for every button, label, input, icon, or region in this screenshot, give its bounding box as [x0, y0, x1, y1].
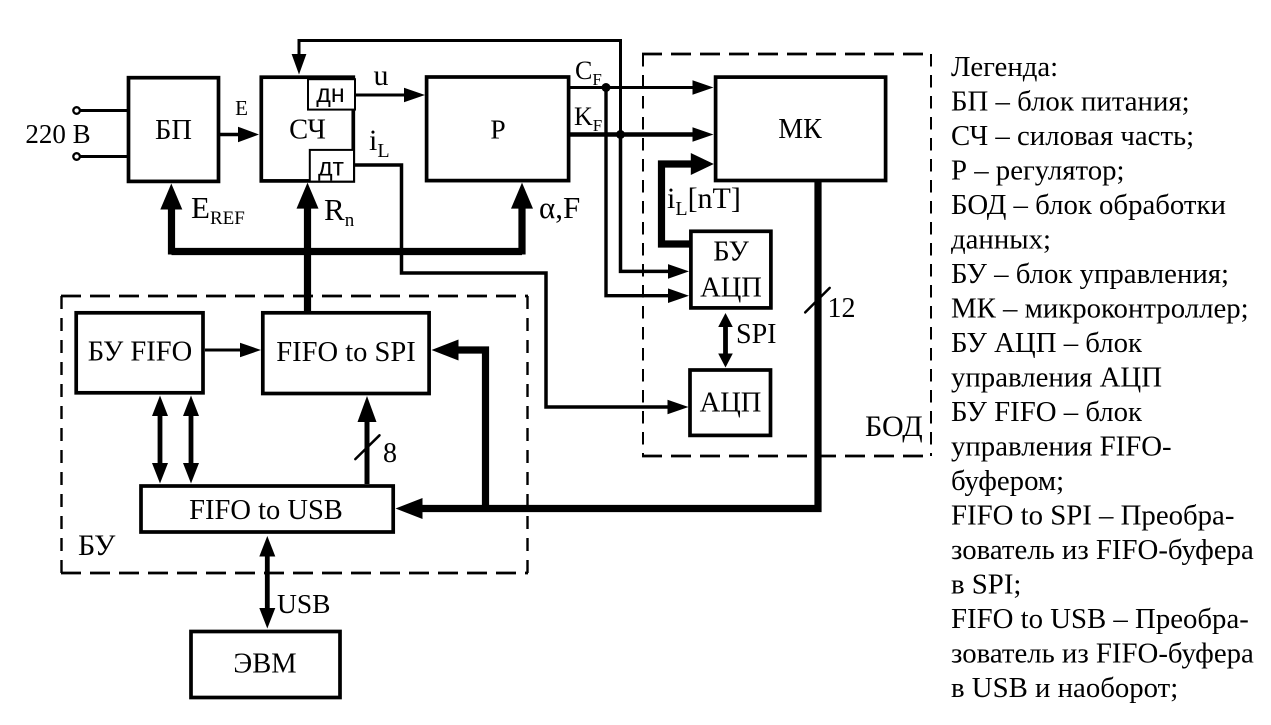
svg-text:α,F: α,F — [539, 190, 580, 225]
svg-text:Р: Р — [490, 114, 505, 145]
svg-text:БОД: БОД — [865, 410, 923, 443]
svg-text:ЭВМ: ЭВМ — [233, 649, 296, 680]
svg-text:МК – микроконтроллер;: МК – микроконтроллер; — [951, 293, 1249, 325]
svg-text:зователь из FIFO-буфера: зователь из FIFO-буфера — [951, 638, 1254, 670]
svg-text:СЧ – силовая часть;: СЧ – силовая часть; — [951, 120, 1194, 152]
svg-text:буфером;: буфером; — [951, 465, 1064, 497]
svg-text:БУ: БУ — [713, 237, 749, 268]
svg-text:дн: дн — [316, 80, 344, 108]
svg-text:в SPI;: в SPI; — [951, 569, 1021, 601]
svg-text:USB: USB — [277, 588, 331, 619]
svg-text:БОД – блок обработки: БОД – блок обработки — [951, 189, 1226, 221]
svg-text:БП – блок питания;: БП – блок питания; — [951, 86, 1190, 118]
svg-text:БУ АЦП – блок: БУ АЦП – блок — [951, 327, 1143, 359]
svg-text:в USB и наоборот;: в USB и наоборот; — [951, 672, 1178, 704]
svg-text:FIFO to SPI: FIFO to SPI — [276, 337, 415, 368]
svg-text:220 В: 220 В — [25, 119, 90, 149]
svg-text:управления FIFO-: управления FIFO- — [951, 431, 1172, 463]
svg-text:БУ FIFO: БУ FIFO — [88, 337, 192, 368]
svg-text:12: 12 — [828, 293, 856, 324]
svg-text:БУ FIFO – блок: БУ FIFO – блок — [951, 396, 1143, 428]
svg-text:8: 8 — [383, 438, 397, 469]
svg-text:FIFO to USB – Преобра-: FIFO to USB – Преобра- — [951, 603, 1249, 635]
svg-text:СЧ: СЧ — [289, 115, 326, 146]
svg-text:БУ – блок управления;: БУ – блок управления; — [951, 258, 1229, 290]
svg-text:управления АЦП: управления АЦП — [951, 362, 1162, 394]
svg-text:данных;: данных; — [951, 224, 1051, 256]
svg-text:FIFO to SPI – Преобра-: FIFO to SPI – Преобра- — [951, 500, 1234, 532]
svg-text:SPI: SPI — [736, 319, 776, 350]
svg-text:u: u — [374, 59, 389, 92]
svg-text:зователь из FIFO-буфера: зователь из FIFO-буфера — [951, 534, 1254, 566]
svg-text:АЦП: АЦП — [700, 388, 762, 419]
svg-text:E: E — [235, 96, 248, 120]
svg-text:FIFO to USB: FIFO to USB — [189, 495, 343, 526]
svg-text:АЦП: АЦП — [700, 273, 762, 304]
svg-text:Легенда:: Легенда: — [951, 51, 1058, 83]
svg-text:БУ: БУ — [78, 529, 116, 562]
svg-text:дт: дт — [318, 154, 345, 182]
svg-text:БП: БП — [155, 115, 192, 146]
svg-text:МК: МК — [778, 114, 822, 145]
svg-text:Р – регулятор;: Р – регулятор; — [951, 155, 1125, 187]
